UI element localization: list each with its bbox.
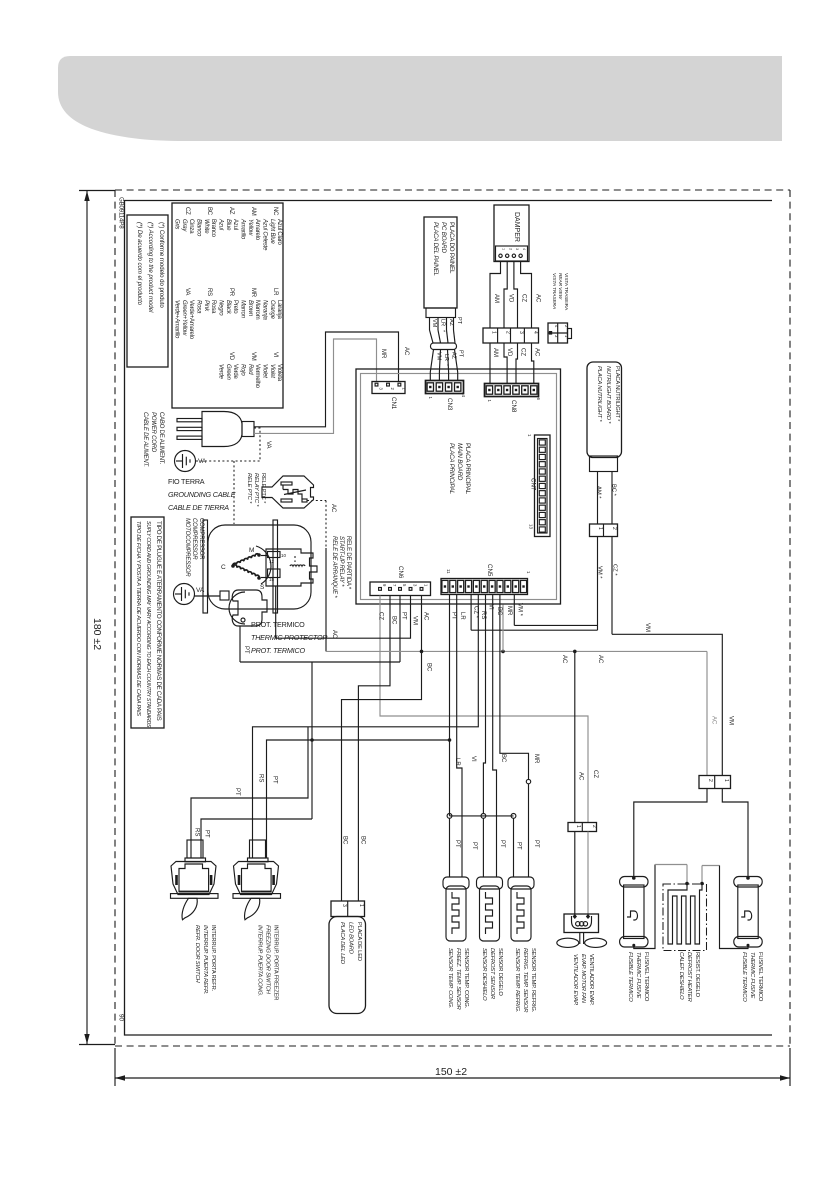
svg-text:3: 3 xyxy=(341,904,347,907)
svg-text:PLACA DE LED: PLACA DE LED xyxy=(356,922,362,961)
svg-text:PLACA DEL PAINEL: PLACA DEL PAINEL xyxy=(432,222,439,277)
svg-text:GROUNDING CABLE: GROUNDING CABLE xyxy=(168,490,236,499)
svg-text:AC: AC xyxy=(578,772,584,781)
wire CN5 CZ xyxy=(470,595,472,631)
svg-text:PT: PT xyxy=(204,830,210,838)
svg-text:MR: MR xyxy=(380,349,386,359)
wire CN5 LR to sensor xyxy=(457,595,462,878)
svg-text:AZ: AZ xyxy=(228,207,234,215)
node sensor rings xyxy=(447,814,452,819)
svg-text:90: 90 xyxy=(118,1014,125,1022)
svg-text:FREEZING DOOR SWITCH: FREEZING DOOR SWITCH xyxy=(265,925,271,995)
wire CN5 VI to sensor xyxy=(483,595,485,814)
relay start-up pads xyxy=(268,552,281,558)
wire VM fuse line xyxy=(612,634,722,775)
wire CN6 BC to led xyxy=(358,596,390,902)
svg-text:POWER CORD: POWER CORD xyxy=(150,412,156,453)
svg-text:TIPO DE FICHA Y POSTA A TIERRA: TIPO DE FICHA Y POSTA A TIERRA DE ACUERD… xyxy=(135,521,141,716)
svg-text:AC: AC xyxy=(597,655,603,664)
svg-text:(*) De acuerdo com el producto: (*) De acuerdo com el producto xyxy=(136,222,143,306)
svg-text:VM: VM xyxy=(412,616,418,625)
svg-text:Marron: Marron xyxy=(240,300,246,319)
wire CN6 VM to relay xyxy=(276,586,411,638)
inner solid frame xyxy=(125,201,773,1036)
panel wire joiner bar xyxy=(431,343,457,350)
svg-text:Blanco: Blanco xyxy=(196,219,202,237)
svg-text:Amarelo: Amarelo xyxy=(254,219,260,241)
wire nutrilight BC xyxy=(611,472,613,525)
svg-text:2: 2 xyxy=(707,779,713,782)
node heater junctions xyxy=(685,882,689,886)
svg-text:PLACA NUTRILIGHT *: PLACA NUTRILIGHT * xyxy=(596,366,602,422)
svg-text:4: 4 xyxy=(532,331,538,334)
svg-text:LR: LR xyxy=(454,758,460,766)
wire AC to led xyxy=(342,651,422,901)
switch refrigerator door xyxy=(187,840,203,858)
wire inline to CN8 3 xyxy=(516,343,518,384)
svg-text:PLACA DO PAINEL: PLACA DO PAINEL xyxy=(448,222,455,274)
wire fan CZ xyxy=(587,832,589,915)
relay PTC outline xyxy=(262,476,314,508)
svg-text:AC: AC xyxy=(403,347,409,356)
svg-text:CZ: CZ xyxy=(184,207,190,215)
svg-text:1: 1 xyxy=(502,248,506,250)
svg-text:RS: RS xyxy=(480,611,486,619)
svg-text:VM: VM xyxy=(644,623,650,632)
svg-text:EVAP. MOTOR FAN: EVAP. MOTOR FAN xyxy=(580,954,586,1004)
connector CN1 xyxy=(372,382,405,394)
svg-text:BC: BC xyxy=(426,663,432,672)
svg-text:SUPLY CORD AND GROUNDING MAY V: SUPLY CORD AND GROUNDING MAY VARY ACCORD… xyxy=(145,521,151,728)
svg-text:Pink: Pink xyxy=(203,300,209,312)
fuse thermal 1 xyxy=(620,877,648,888)
compressor mounting bars xyxy=(203,520,208,613)
svg-text:3: 3 xyxy=(515,248,519,250)
dimension 150 line xyxy=(115,1077,790,1079)
svg-text:Cinza: Cinza xyxy=(188,219,194,234)
svg-text:SENSOR DEGELO: SENSOR DEGELO xyxy=(497,948,503,996)
connector CN8 xyxy=(485,384,539,397)
svg-text:150 ±2: 150 ±2 xyxy=(435,1066,467,1078)
node AC junction xyxy=(420,650,424,654)
svg-text:DEFROST HEATER: DEFROST HEATER xyxy=(686,952,692,1003)
connector fan inline xyxy=(568,823,597,832)
fan motor coil xyxy=(572,916,592,929)
svg-text:M: M xyxy=(249,547,254,554)
protector arc xyxy=(229,592,245,624)
main board inner xyxy=(361,374,557,600)
svg-text:SENSOR DESHIELO: SENSOR DESHIELO xyxy=(481,948,487,1001)
svg-text:Blue: Blue xyxy=(225,219,231,231)
svg-text:VD: VD xyxy=(506,348,512,357)
connector fuse inline xyxy=(699,776,731,789)
svg-text:VI: VI xyxy=(272,352,278,358)
nutrilight board box xyxy=(587,362,622,458)
svg-text:INTERRUP. PORTA REFR.: INTERRUP. PORTA REFR. xyxy=(210,925,216,992)
svg-text:LED BOARD: LED BOARD xyxy=(348,922,354,954)
svg-text:INTERRUP. PUERTA REFR.: INTERRUP. PUERTA REFR. xyxy=(202,925,208,994)
connector nutrilight inline xyxy=(590,524,618,537)
svg-text:CN1: CN1 xyxy=(390,397,397,410)
power plug xyxy=(177,419,202,422)
svg-text:BC: BC xyxy=(500,754,506,763)
svg-text:CZ *: CZ * xyxy=(473,606,479,619)
svg-text:PC BOARD: PC BOARD xyxy=(440,222,447,253)
wire PT net horizontal xyxy=(240,661,400,663)
svg-text:Vermelho: Vermelho xyxy=(254,364,260,389)
svg-text:AC: AC xyxy=(534,348,540,357)
wire CN5 PT xyxy=(449,595,451,816)
svg-text:SENSOR TEMP. REFRIG.: SENSOR TEMP. REFRIG. xyxy=(530,948,536,1013)
panel board connector xyxy=(426,308,456,318)
node C xyxy=(231,564,235,568)
svg-text:2: 2 xyxy=(591,825,597,828)
svg-text:PLACA NUTRILIGHT *: PLACA NUTRILIGHT * xyxy=(614,366,620,422)
wire CN5 BC to sensor xyxy=(493,595,497,878)
svg-text:Violet: Violet xyxy=(269,364,275,378)
wire VM to nutrilight xyxy=(514,624,597,626)
switch freezer door xyxy=(250,840,266,858)
svg-text:PT: PT xyxy=(499,840,505,848)
svg-text:Preto: Preto xyxy=(232,300,238,314)
wire plug to CN1 MR xyxy=(254,339,377,433)
wire fuse1 to heater xyxy=(634,865,655,949)
svg-text:10: 10 xyxy=(281,553,287,558)
svg-text:TIPO DE PLUGUE E ATERRAMENTO C: TIPO DE PLUGUE E ATERRAMENTO CONFORME NO… xyxy=(155,521,162,721)
damper connector xyxy=(496,246,528,261)
svg-text:Green: Green xyxy=(225,364,231,381)
note conforme modelo box xyxy=(127,215,168,367)
svg-text:BC: BC xyxy=(391,616,397,625)
svg-text:Naranja: Naranja xyxy=(262,300,268,320)
svg-text:RELAY PTC *: RELAY PTC * xyxy=(253,473,259,507)
svg-text:2: 2 xyxy=(505,331,511,334)
svg-text:VM: VM xyxy=(431,319,437,328)
svg-text:PT: PT xyxy=(533,840,539,848)
svg-text:PLACA PRINCIPAL: PLACA PRINCIPAL xyxy=(464,443,471,495)
connector damper inline xyxy=(483,328,539,343)
svg-text:1: 1 xyxy=(723,779,729,782)
svg-text:PT: PT xyxy=(401,612,407,620)
svg-text:Verde: Verde xyxy=(232,364,238,380)
wire CN5 MR to sensor xyxy=(500,595,529,780)
svg-text:BC: BC xyxy=(206,207,212,216)
svg-text:LR: LR xyxy=(459,612,465,620)
svg-text:4: 4 xyxy=(522,248,526,250)
svg-text:RELE PTC *: RELE PTC * xyxy=(246,473,252,504)
svg-text:REAR VIEW: REAR VIEW xyxy=(557,273,563,300)
svg-text:Orange: Orange xyxy=(269,300,275,320)
svg-text:PT: PT xyxy=(272,776,278,784)
relay start-up dotted link xyxy=(294,556,296,562)
svg-text:FUSIBLE TERMICO: FUSIBLE TERMICO xyxy=(741,952,747,1002)
wire S to relay xyxy=(261,577,268,579)
svg-text:1: 1 xyxy=(575,825,581,828)
svg-text:11: 11 xyxy=(446,569,451,574)
svg-text:PT: PT xyxy=(516,842,522,850)
wire CN6 AC xyxy=(421,596,423,652)
svg-text:VM *: VM * xyxy=(597,566,603,579)
svg-text:CN5: CN5 xyxy=(486,564,493,577)
svg-text:Violet: Violet xyxy=(262,364,268,378)
svg-text:White: White xyxy=(203,219,209,234)
svg-text:PT: PT xyxy=(458,350,464,358)
svg-text:VI: VI xyxy=(470,756,476,762)
protector outline xyxy=(232,590,267,626)
svg-text:PROT. TERMICO: PROT. TERMICO xyxy=(251,646,305,655)
wire CN6 CZ to fan xyxy=(380,596,588,823)
svg-text:CZ: CZ xyxy=(592,770,598,778)
svg-text:Light Blue: Light Blue xyxy=(269,219,275,245)
svg-text:Branco: Branco xyxy=(210,219,216,238)
damper box xyxy=(494,205,529,262)
sensor defrost xyxy=(477,877,503,889)
svg-text:AC: AC xyxy=(330,504,336,513)
svg-text:FUSIBLE TERMICO: FUSIBLE TERMICO xyxy=(627,952,633,1002)
svg-text:CN8: CN8 xyxy=(510,400,517,413)
svg-text:BC: BC xyxy=(342,836,348,845)
svg-text:INTERRUP. PORTA FREEZER: INTERRUP. PORTA FREEZER xyxy=(273,925,279,1000)
svg-text:VM: VM xyxy=(728,716,734,725)
svg-text:NC: NC xyxy=(272,207,278,216)
fuse thermal 2 xyxy=(734,877,762,888)
svg-text:Rosa: Rosa xyxy=(196,300,202,314)
svg-text:CABO DE ALIMENT.: CABO DE ALIMENT. xyxy=(158,412,164,465)
svg-text:LR: LR xyxy=(272,288,278,296)
panel wires upper xyxy=(429,318,431,331)
wire nutrilight CZ xyxy=(611,537,613,635)
panel board box xyxy=(424,217,457,308)
svg-text:MAIN BOARD: MAIN BOARD xyxy=(456,443,463,481)
sensor refrigerator temp xyxy=(508,877,534,889)
svg-text:S: S xyxy=(260,584,265,591)
fan blades xyxy=(557,938,579,947)
ground symbol earth 1 xyxy=(175,451,196,472)
svg-text:VA: VA xyxy=(265,441,271,449)
svg-text:RS: RS xyxy=(206,288,212,296)
svg-text:VA: VA xyxy=(184,288,190,295)
svg-text:PT: PT xyxy=(454,840,460,848)
compressor shell xyxy=(208,525,311,609)
svg-text:CN3: CN3 xyxy=(446,398,453,411)
svg-text:FUSIVEL TERMICO: FUSIVEL TERMICO xyxy=(757,952,763,1002)
wire AC fuse gray xyxy=(706,651,708,775)
svg-text:Green+Yellow: Green+Yellow xyxy=(181,300,187,336)
svg-text:Azul Celeste: Azul Celeste xyxy=(262,218,268,251)
svg-text:Azul Claro: Azul Claro xyxy=(276,219,282,246)
wire sensor drops xyxy=(449,818,451,877)
svg-text:VISTA TRASEIRA: VISTA TRASEIRA xyxy=(563,273,569,311)
main board outer xyxy=(356,369,561,604)
wire sensor PT bus xyxy=(450,815,514,817)
svg-text:2: 2 xyxy=(611,527,617,530)
panel wires lower xyxy=(430,350,433,381)
wire VA ground dotted xyxy=(254,428,260,461)
sheet dashed border xyxy=(115,189,790,191)
svg-text:AM: AM xyxy=(493,294,499,303)
relay start-up outline xyxy=(266,549,317,586)
svg-text:FREEZ. TEMP. SENSOR: FREEZ. TEMP. SENSOR xyxy=(455,948,461,1010)
svg-text:COMPRESSOR: COMPRESSOR xyxy=(191,518,197,560)
svg-text:AM: AM xyxy=(250,207,256,216)
svg-text:Azul: Azul xyxy=(232,219,238,230)
wire fuse1 feed xyxy=(634,789,707,877)
dimension 180 line xyxy=(86,191,88,1044)
heater defrost boundary xyxy=(663,884,707,951)
wire nutrilight VM xyxy=(597,537,599,631)
svg-text:1: 1 xyxy=(491,331,497,334)
wire AC vertical compressor xyxy=(325,548,327,651)
compressor winding S xyxy=(233,565,259,578)
svg-text:MR: MR xyxy=(533,754,539,764)
svg-text:Black: Black xyxy=(225,300,231,315)
svg-text:SENSOR TEMP. CONG.: SENSOR TEMP. CONG. xyxy=(463,948,469,1009)
svg-text:VENTILADOR EVAP.: VENTILADOR EVAP. xyxy=(572,954,578,1005)
wire damper VD xyxy=(504,262,507,329)
svg-text:PLACA DEL LED: PLACA DEL LED xyxy=(339,922,345,964)
svg-text:AC: AC xyxy=(561,655,567,664)
svg-text:RELE PTC *: RELE PTC * xyxy=(260,473,266,504)
svg-text:REFR. DOOR SWITCH: REFR. DOOR SWITCH xyxy=(194,925,200,983)
connector CN7 xyxy=(535,435,551,537)
wire RS net xyxy=(253,595,479,859)
led board box xyxy=(329,917,366,1014)
svg-text:CALEF. DESHIELO: CALEF. DESHIELO xyxy=(678,952,684,1000)
svg-text:BC: BC xyxy=(496,607,502,616)
svg-text:LR: LR xyxy=(440,319,446,326)
svg-text:VM *: VM * xyxy=(517,603,523,617)
wire nutrilight AM xyxy=(597,472,599,525)
relay PTC element xyxy=(283,485,302,499)
svg-text:CABLE DE TIERRA: CABLE DE TIERRA xyxy=(168,503,229,512)
wire inline to CN8 4 xyxy=(532,343,534,384)
svg-text:Azul: Azul xyxy=(218,218,224,231)
wire PTC to AC dotted xyxy=(307,500,326,502)
svg-text:Verde+Amarelo: Verde+Amarelo xyxy=(188,300,194,340)
wire CN5 VM xyxy=(513,595,515,626)
svg-text:2: 2 xyxy=(508,248,512,250)
svg-text:CZ: CZ xyxy=(378,612,384,620)
wire fuse2 feed xyxy=(722,789,748,877)
svg-text:12: 12 xyxy=(269,559,275,564)
svg-text:RELE DE ARRANQUE *: RELE DE ARRANQUE * xyxy=(331,536,337,598)
svg-text:REFRIG. TEMP. SENSOR: REFRIG. TEMP. SENSOR xyxy=(522,948,528,1013)
wire plug to CN1 AC xyxy=(254,332,399,427)
svg-text:VD: VD xyxy=(228,352,234,361)
svg-text:MOTOCOMPRESSOR: MOTOCOMPRESSOR xyxy=(184,518,190,577)
svg-text:MR: MR xyxy=(250,288,256,298)
svg-text:13: 13 xyxy=(529,524,534,530)
svg-text:VA: VA xyxy=(198,458,207,465)
svg-text:SENSOR TEMP. REFRIG.: SENSOR TEMP. REFRIG. xyxy=(514,948,520,1012)
svg-text:Violeta: Violeta xyxy=(276,364,282,382)
svg-text:(*) According to the product m: (*) According to the product model xyxy=(147,222,154,313)
svg-text:AC: AC xyxy=(711,716,717,725)
note plug type box xyxy=(131,517,164,728)
wire damper AM xyxy=(490,262,501,329)
svg-text:Rosa: Rosa xyxy=(210,300,216,314)
svg-text:CZ: CZ xyxy=(520,348,526,356)
svg-text:Gris: Gris xyxy=(174,219,180,229)
svg-text:VI: VI xyxy=(488,604,494,610)
svg-text:VENTILADOR EVAP.: VENTILADOR EVAP. xyxy=(588,954,594,1006)
svg-text:AM *: AM * xyxy=(596,486,602,499)
svg-text:CABLE DE ALIMENT.: CABLE DE ALIMENT. xyxy=(142,412,148,467)
svg-text:15: 15 xyxy=(269,577,275,582)
svg-text:INTERRUP. PUERTA CONG.: INTERRUP. PUERTA CONG. xyxy=(257,925,263,996)
svg-text:PR: PR xyxy=(228,288,234,297)
svg-text:THERMIC FUSIVE: THERMIC FUSIVE xyxy=(749,952,755,998)
svg-text:Marrom: Marrom xyxy=(254,300,260,320)
led board connector xyxy=(331,901,365,917)
svg-text:AC: AC xyxy=(423,612,429,621)
svg-text:BC *: BC * xyxy=(611,484,617,497)
wire protector PT xyxy=(239,626,241,662)
svg-text:PT: PT xyxy=(243,646,249,654)
svg-text:180 ±2: 180 ±2 xyxy=(91,618,103,650)
svg-text:C: C xyxy=(221,564,226,571)
svg-text:START-UP RELAY *: START-UP RELAY * xyxy=(338,536,344,587)
svg-text:Verde+Amarillo: Verde+Amarillo xyxy=(174,300,180,339)
svg-text:CZ: CZ xyxy=(521,294,527,302)
svg-text:AZ: AZ xyxy=(448,319,454,327)
svg-text:VM: VM xyxy=(436,352,442,361)
svg-text:GB09114P8: GB09114P8 xyxy=(118,197,125,229)
svg-text:Verde: Verde xyxy=(218,364,224,380)
svg-text:RELE DE PARTIDA *: RELE DE PARTIDA * xyxy=(345,536,351,590)
connector CN5 xyxy=(441,579,528,595)
wire ground to shell lug xyxy=(195,595,221,597)
connector rear view xyxy=(548,323,568,343)
svg-text:CN7: CN7 xyxy=(530,478,537,491)
svg-text:CZ *: CZ * xyxy=(612,564,618,576)
svg-text:PT: PT xyxy=(456,317,462,325)
svg-text:(*) Conforme modelo do produto: (*) Conforme modelo do produto xyxy=(158,222,165,308)
svg-text:Amarillo: Amarillo xyxy=(240,218,246,240)
svg-text:Laranja: Laranja xyxy=(276,300,282,319)
wire PT drop xyxy=(311,662,313,819)
svg-text:Brown: Brown xyxy=(247,300,253,317)
sensor freezer temp xyxy=(443,877,469,889)
fan motor box xyxy=(564,914,599,933)
compressor winding arc xyxy=(256,546,271,584)
svg-text:LR: LR xyxy=(443,354,449,361)
svg-text:RS: RS xyxy=(258,774,264,782)
svg-text:BC: BC xyxy=(360,836,366,845)
legend wire colour table xyxy=(172,203,283,408)
svg-text:Red: Red xyxy=(247,364,253,375)
svg-text:RS: RS xyxy=(194,828,200,836)
wire damper CZ xyxy=(514,262,518,329)
wire inline to CN8 1 xyxy=(489,343,491,384)
wire CZ to nutrilight xyxy=(471,629,597,631)
svg-text:CN6: CN6 xyxy=(397,566,404,579)
wire heater to fuse2 xyxy=(701,866,703,885)
svg-text:1: 1 xyxy=(358,904,364,907)
svg-text:PLACA PRINCIPAL: PLACA PRINCIPAL xyxy=(448,443,455,495)
wire AC gray drop xyxy=(502,605,504,652)
svg-text:Gray: Gray xyxy=(181,219,187,232)
svg-text:PT: PT xyxy=(234,788,240,796)
svg-text:DAMPER: DAMPER xyxy=(513,212,520,242)
svg-text:VA: VA xyxy=(196,587,205,594)
svg-text:SENSOR TEMP. CONG.: SENSOR TEMP. CONG. xyxy=(447,948,453,1008)
svg-text:RESIST. DEGELO: RESIST. DEGELO xyxy=(694,952,700,998)
relay start-up coil xyxy=(290,565,305,566)
ground lug xyxy=(220,591,229,600)
svg-text:DEFROST SENSOR: DEFROST SENSOR xyxy=(489,948,495,1000)
svg-text:1: 1 xyxy=(597,527,603,530)
